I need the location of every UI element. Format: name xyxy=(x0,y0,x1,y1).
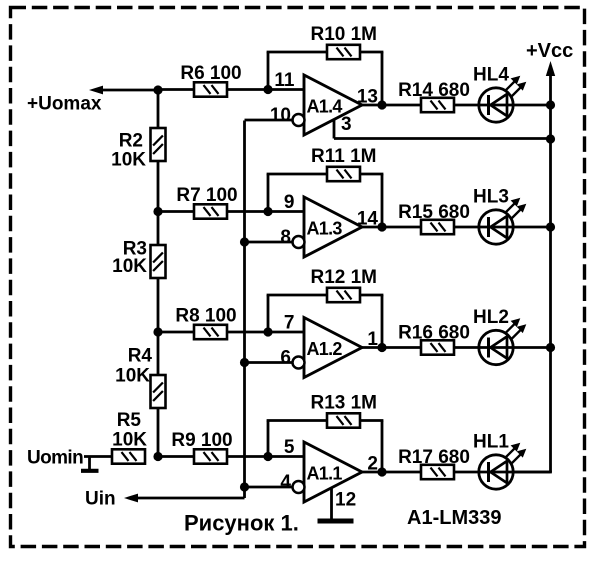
wire: +Vcc rail xyxy=(513,72,552,472)
wire: inverting input to A1.1 pin 4 xyxy=(245,486,300,489)
wire: LED HL3 to +Vcc rail xyxy=(514,226,551,229)
wire: non-inverting input row to A1.3 pin 9 xyxy=(158,210,304,213)
resistor R11 1M xyxy=(311,146,376,181)
junction: rail / R6 tap xyxy=(153,85,162,94)
svg-text:R10 1M: R10 1M xyxy=(310,24,377,45)
resistor R17 680 xyxy=(398,447,470,479)
op-amp A1.3 (comparator) xyxy=(293,197,363,257)
resistor R12 1M xyxy=(310,267,377,302)
svg-text:R11 1M: R11 1M xyxy=(311,146,376,167)
wire: Uin rail to inverting inputs xyxy=(243,121,246,499)
wire: pin 3 supply connection of A1.4 to +Vcc rail xyxy=(334,120,551,139)
junction: feedback / pin 5 xyxy=(263,452,272,461)
svg-text:13: 13 xyxy=(357,87,378,108)
svg-text:Рисунок 1.: Рисунок 1. xyxy=(184,511,299,536)
junction: pin 3 wire / +Vcc rail xyxy=(546,134,555,143)
svg-text:14: 14 xyxy=(357,209,379,230)
svg-text:+Vcc: +Vcc xyxy=(526,40,573,62)
svg-text:10K: 10K xyxy=(112,430,147,451)
resistor R13 1M xyxy=(310,393,377,428)
resistor R9 100 xyxy=(171,430,232,464)
svg-text:R6 100: R6 100 xyxy=(180,63,241,84)
svg-text:A1-LM339: A1-LM339 xyxy=(407,507,501,529)
ground symbol (pin 12) xyxy=(318,519,354,524)
svg-text:HL3: HL3 xyxy=(473,187,509,208)
junction: Uin rail / pin 4 wire xyxy=(240,482,249,491)
wire: non-inverting input row to A1.4 pin 11 xyxy=(158,88,304,91)
resistor R15 680 xyxy=(398,202,470,234)
svg-text:Uin: Uin xyxy=(85,489,116,510)
junction: rail / R8 tap xyxy=(153,327,162,336)
svg-text:R5: R5 xyxy=(117,410,142,431)
node +Vcc (arrow and label) xyxy=(526,40,573,76)
svg-text:R8 100: R8 100 xyxy=(175,306,236,327)
svg-text:R12 1M: R12 1M xyxy=(310,267,377,288)
LED HL3 xyxy=(473,187,526,245)
junction: rail / R5-R9 tap xyxy=(153,452,162,461)
wire: non-inverting input row to A1.1 pin 5 xyxy=(158,455,304,458)
wire: left divider rail (R2-R5 chain) xyxy=(157,90,160,457)
wire: A1.2 output to LED branch xyxy=(360,346,478,349)
svg-text:R14 680: R14 680 xyxy=(398,80,470,101)
svg-text:6: 6 xyxy=(280,348,291,369)
resistor R2 10K xyxy=(111,128,165,171)
svg-text:4: 4 xyxy=(280,472,291,493)
wire: inverting input to A1.3 pin 8 xyxy=(245,241,300,244)
resistor R4 10K xyxy=(115,346,165,409)
op-amp A1.4 (comparator) xyxy=(293,75,363,135)
resistor R14 680 xyxy=(398,80,470,112)
junction: A1.1 output node xyxy=(377,467,386,476)
wire: feedback loop for A1.2 xyxy=(267,295,384,348)
wire: inverting input to A1.2 pin 6 xyxy=(245,361,300,364)
wire: LED HL4 to +Vcc rail xyxy=(514,104,551,107)
wire: feedback loop for A1.4 xyxy=(267,52,384,105)
svg-text:2: 2 xyxy=(367,454,378,475)
svg-text:R4: R4 xyxy=(128,346,153,367)
svg-text:R9 100: R9 100 xyxy=(171,430,232,451)
wire: pin 12 of A1.1 to ground xyxy=(330,488,333,519)
wire: non-inverting input row to A1.2 pin 7 xyxy=(158,331,304,334)
wire: feedback loop for A1.1 xyxy=(267,421,384,473)
junction: feedback / pin 9 xyxy=(263,207,272,216)
svg-text:12: 12 xyxy=(335,490,356,511)
node Uomin (label, wire and common tick) xyxy=(27,448,112,471)
svg-text:10K: 10K xyxy=(112,256,147,277)
svg-text:HL4: HL4 xyxy=(473,65,509,86)
svg-text:10K: 10K xyxy=(111,150,146,171)
LED HL1 xyxy=(473,432,526,490)
wire: A1.4 output to LED branch xyxy=(360,104,478,107)
resistor R10 1M xyxy=(310,24,377,59)
wire: LED HL2 to +Vcc rail xyxy=(514,346,551,349)
resistor R7 100 xyxy=(176,185,237,219)
svg-text:1: 1 xyxy=(367,329,378,350)
svg-text:+Uomax: +Uomax xyxy=(27,94,102,115)
resistor R5 10K xyxy=(112,410,147,464)
resistor R16 680 xyxy=(398,323,470,355)
svg-text:10: 10 xyxy=(270,105,291,126)
junction: feedback / pin 11 xyxy=(263,85,272,94)
svg-text:8: 8 xyxy=(280,227,291,248)
junction: feedback / pin 7 xyxy=(263,327,272,336)
svg-text:R15 680: R15 680 xyxy=(398,202,470,223)
svg-text:7: 7 xyxy=(284,313,295,334)
svg-text:A1.3: A1.3 xyxy=(307,219,343,239)
op-amp A1.1 (comparator) xyxy=(293,442,363,502)
wire: inverting input to A1.4 pin 10 xyxy=(245,119,300,122)
junction: Uin rail / pin 8 wire xyxy=(240,237,249,246)
wire: A1.3 output to LED branch xyxy=(360,226,478,229)
svg-text:A1.4: A1.4 xyxy=(307,97,343,117)
op-amp A1.2 (comparator) xyxy=(293,318,363,378)
wire: feedback loop for A1.3 xyxy=(267,174,384,227)
svg-text:10K: 10K xyxy=(115,366,150,387)
node Uin (arrow, label) xyxy=(85,489,245,510)
svg-text:3: 3 xyxy=(341,114,352,135)
svg-text:R13 1M: R13 1M xyxy=(310,393,377,414)
svg-text:11: 11 xyxy=(274,70,295,91)
svg-text:R7 100: R7 100 xyxy=(176,185,237,206)
junction: A1.2 output node xyxy=(377,343,386,352)
resistor R6 100 xyxy=(180,63,241,97)
junction: A1.3 output node xyxy=(377,222,386,231)
junction: rail / R7 tap xyxy=(153,207,162,216)
wire: A1.1 output to LED branch xyxy=(360,471,478,474)
LED HL2 xyxy=(473,307,526,365)
node +Uomax (arrow and label) xyxy=(27,86,158,115)
wire: LED HL1 to +Vcc rail xyxy=(514,471,551,474)
svg-text:5: 5 xyxy=(284,437,295,458)
svg-text:HL1: HL1 xyxy=(473,432,509,453)
svg-text:A1.2: A1.2 xyxy=(307,339,343,359)
svg-text:R17 680: R17 680 xyxy=(398,447,470,468)
junction: +Vcc rail / HL3 row xyxy=(546,222,555,231)
svg-text:R2: R2 xyxy=(119,131,143,152)
junction: +Vcc rail / HL4 row xyxy=(546,100,555,109)
svg-text:9: 9 xyxy=(284,192,295,213)
junction: +Vcc rail / HL2 row xyxy=(546,343,555,352)
resistor R8 100 xyxy=(175,306,236,340)
resistor R3 10K xyxy=(112,239,165,279)
LED HL4 xyxy=(473,65,526,123)
svg-text:A1.1: A1.1 xyxy=(307,464,343,484)
junction: A1.4 output node xyxy=(377,100,386,109)
svg-text:HL2: HL2 xyxy=(473,307,509,328)
junction: Uin rail / pin 6 wire xyxy=(240,358,249,367)
svg-text:Uomin: Uomin xyxy=(27,448,83,469)
svg-text:R16 680: R16 680 xyxy=(398,323,470,344)
